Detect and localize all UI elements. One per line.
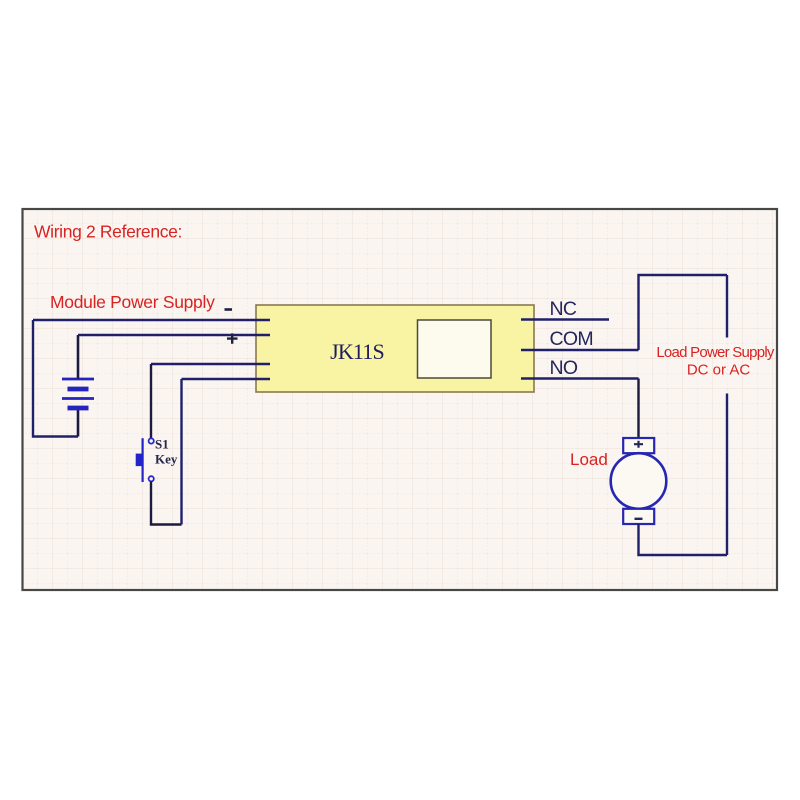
svg-text:COM: COM (550, 328, 593, 350)
pin 4 wire to module (182, 378, 271, 380)
wire: right vertical upper segment (726, 275, 728, 338)
svg-text:Key: Key (155, 452, 178, 467)
svg-text:Load Power Supply: Load Power Supply (656, 344, 775, 361)
border frame (23, 209, 778, 590)
pin 3 wire to module (151, 363, 270, 365)
svg-text:NC: NC (550, 298, 577, 320)
wire: vertical down to switch (150, 364, 152, 438)
wire: left vertical from pin1 to battery bottom (33, 320, 78, 437)
svg-text:S1: S1 (155, 437, 169, 452)
pin NO wire (521, 377, 639, 379)
wire: motor bottom to right vertical (639, 524, 728, 555)
relay contact window (418, 320, 492, 378)
svg-text:Wiring 2 Reference:: Wiring 2 Reference: (34, 222, 182, 242)
label + (plus) (227, 333, 238, 343)
schematic sheet background (23, 209, 778, 590)
wire: NO down to load (637, 379, 639, 439)
wire: vertical up to pin 4 (180, 379, 182, 525)
svg-text:Load: Load (570, 450, 608, 469)
pin NC wire (521, 318, 609, 320)
label - (minus) (225, 308, 233, 311)
wire: battery bottom stub (77, 408, 80, 437)
svg-text:Module Power Supply: Module Power Supply (50, 292, 215, 312)
svg-text:DC or AC: DC or AC (687, 362, 751, 379)
motor load M1 (611, 438, 667, 524)
battery BT1 (62, 379, 94, 408)
switch S1 (push button) (136, 438, 154, 482)
svg-text:JK11S: JK11S (330, 339, 384, 364)
pin 1 (-) wire to module (33, 319, 270, 321)
wire: battery top stub up to + wire (77, 335, 80, 379)
wire: COM up and over to load supply (639, 275, 728, 350)
relay module U1 JK11S body (256, 305, 534, 392)
pin COM wire (521, 349, 639, 351)
wire: right vertical lower segment (726, 394, 728, 556)
svg-text:NO: NO (550, 357, 578, 379)
pin 2 (+) wire to module (78, 334, 270, 336)
wire: below switch (151, 481, 182, 524)
